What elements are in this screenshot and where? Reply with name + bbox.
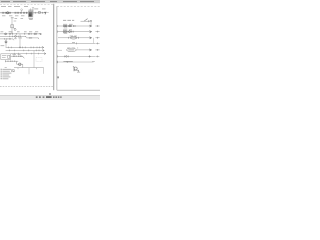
end mark on L3 <box>42 47 44 49</box>
background <box>0 0 100 100</box>
labels around R1 <box>63 23 67 26</box>
status bar text specks right group <box>53 97 62 98</box>
tick on wire L1 <box>42 12 44 14</box>
ticks on wire L7 <box>8 60 15 62</box>
left tick R2 <box>57 31 59 33</box>
wire R6 <box>57 55 95 57</box>
stub after end connector <box>47 12 49 14</box>
connector X1 (circle on wire L1) <box>7 12 9 14</box>
page indicator dot above bar <box>49 93 50 94</box>
end marks R7 <box>92 60 95 63</box>
relay coil on R3 (ellipse) <box>70 37 77 40</box>
label specks left of row3 <box>1 44 5 47</box>
component cluster on R2 <box>63 31 73 33</box>
right page sheet <box>57 6 101 90</box>
right page top border (dashed) <box>57 5 100 7</box>
vertical wire V6 down from L8 <box>28 68 30 75</box>
junction tick at base of V1 <box>11 31 13 34</box>
label above L6 <box>12 53 16 56</box>
wire L1 (main feeder row) <box>0 12 46 14</box>
wire R7 <box>57 61 93 63</box>
left tick R4 <box>57 42 59 44</box>
ticks on wire L2a <box>10 33 37 35</box>
vertical wire V3 <box>5 39 7 47</box>
wire R5 right <box>76 49 91 51</box>
vertical wire V1 <box>11 17 13 31</box>
end mark R2 <box>89 31 91 33</box>
labels above motor <box>67 47 70 50</box>
terminal R4 <box>95 42 99 44</box>
grid ref mark on right page left border <box>58 76 59 78</box>
label speck beside K1 <box>14 27 16 30</box>
terminal R1 <box>95 25 99 27</box>
ticks on wire L4 <box>10 50 40 52</box>
end mark on L5 <box>44 53 46 55</box>
end mark on L4 <box>42 50 44 52</box>
left tick R7 (dark) <box>56 61 58 63</box>
terminal ticks T1 group on wire L1 <box>2 12 27 14</box>
connector X2 on L2a <box>5 33 7 35</box>
link wire between row R3 and row R4 ends <box>93 38 95 44</box>
status bar text specks left group <box>36 97 45 98</box>
wire L2b <box>0 35 26 37</box>
ticks on wire L2b <box>10 36 20 38</box>
small marks on R4 <box>72 41 75 44</box>
dashed auxiliary box <box>36 58 42 62</box>
label row under row1 component ticks <box>15 17 18 20</box>
component K1 (box on V1) <box>11 25 14 28</box>
toolbar text specks <box>1 0 94 3</box>
drop wire from switch S1 to row R1 <box>90 21 92 25</box>
wire L3 <box>6 46 44 48</box>
tick at top of stub <box>32 7 34 9</box>
legend table rows <box>1 69 12 79</box>
wire L4 <box>6 49 45 51</box>
wire L8 (collector) <box>14 67 44 69</box>
end hook on L2b <box>25 36 26 37</box>
wire stub above transformer <box>32 8 34 15</box>
left page right border <box>53 4 55 90</box>
connector circle on L2a <box>34 33 36 35</box>
terminal R3 <box>95 37 99 39</box>
fuse F1 on wire L1 <box>38 12 40 14</box>
start tick on L7 <box>4 60 6 62</box>
wire L7 <box>5 60 18 62</box>
distribution box B1 <box>1 54 11 60</box>
junction link with connector X5 <box>17 63 23 65</box>
terminal R6 <box>95 55 99 57</box>
label text row above wire L1 <box>1 6 46 10</box>
labels above R3 <box>70 35 73 38</box>
terminal R2 <box>95 31 99 33</box>
vertical wire V2 <box>19 34 21 48</box>
ticks on wire L6 <box>13 55 21 57</box>
wire L5 <box>11 53 46 55</box>
wire R2 <box>58 31 92 33</box>
transformer T1 (dark cluster) <box>28 8 33 17</box>
vertical wire V8 down at end of L8 <box>43 68 45 74</box>
label text row R0 <box>63 19 74 22</box>
end mark R5 <box>89 49 91 51</box>
wire R4 <box>58 42 95 44</box>
label text above wire L2a <box>1 30 39 33</box>
riser stub with connector above wire L1 <box>21 10 23 12</box>
connector X3 on L2b <box>15 36 17 38</box>
end mark on L2a <box>40 33 42 35</box>
component cluster on R1 <box>63 25 75 27</box>
label specks near top of V1 <box>11 16 14 19</box>
end connector on wire L1 <box>44 12 46 14</box>
label specks right of L2c <box>14 37 16 40</box>
status bar center mark <box>46 96 52 98</box>
connector circle beside K1 <box>14 29 16 31</box>
right page bottom border <box>57 89 100 91</box>
ticks on wire L2c <box>5 38 11 40</box>
ticks on wire L2b2 <box>29 37 32 39</box>
wire R3 <box>58 37 92 39</box>
ticks on wire L5 <box>14 53 38 55</box>
vertical wire V7 from L5 to L8 <box>33 51 35 68</box>
left tick R6 <box>56 55 58 57</box>
wire L2c <box>0 38 13 40</box>
tick on wire L1 <box>34 12 36 14</box>
connector X4 on V3 <box>5 41 7 43</box>
end mark R3 <box>89 37 91 39</box>
wire L2b2 (continuation jog) <box>27 37 39 39</box>
marks inside box B1 <box>2 54 6 57</box>
marks on R7 <box>63 60 66 63</box>
terminal R5 <box>95 49 99 51</box>
toolbar <box>0 0 100 3</box>
dark segment on R7 left <box>66 61 73 63</box>
end hook on L2b2 <box>38 38 39 39</box>
drop ticks from L8 <box>17 68 19 70</box>
end hook on L2c <box>13 39 14 40</box>
wire R1 <box>58 25 92 27</box>
motor M1 on R5 (ellipse) <box>67 48 77 51</box>
switch S1 <box>81 20 93 22</box>
relay K2 cluster (p-shape) <box>73 67 80 72</box>
end mark R1 <box>89 25 91 27</box>
ticks on R3 <box>68 37 70 39</box>
labels around R2 <box>63 29 67 32</box>
symbol box with cross <box>12 70 15 72</box>
ticks on wire L3 <box>8 47 39 49</box>
vertical drop from L7 <box>16 61 18 64</box>
speck above legend <box>5 66 7 69</box>
label speck near V2 <box>18 37 22 40</box>
wire R5 left stub <box>57 49 62 51</box>
left page top border (dashed) <box>0 4 54 6</box>
marks on R6 <box>65 56 69 58</box>
left page bottom border (dashed) <box>0 86 54 88</box>
left tick R1 <box>57 25 59 27</box>
right page left border <box>56 6 58 90</box>
left page sheet <box>0 4 54 91</box>
junction dot V2/L3 <box>19 47 20 48</box>
status bar <box>0 96 100 101</box>
wire L6 <box>11 55 24 57</box>
cross mark on R6 <box>89 55 91 57</box>
label text row below wire L1 <box>2 15 33 20</box>
wire L2a <box>0 33 41 35</box>
end hook on L6 <box>23 56 25 58</box>
